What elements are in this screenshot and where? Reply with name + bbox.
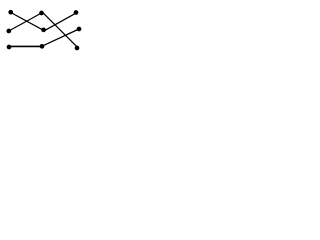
wire edge M-C (44, 13, 76, 31)
wire edge B-H (43, 12, 78, 47)
node H (75, 46, 80, 51)
wire edge D-B (9, 13, 42, 31)
node E (40, 44, 45, 49)
wire edge A-M (11, 13, 44, 31)
node B (39, 11, 44, 16)
node A (8, 10, 13, 15)
node G (77, 27, 82, 32)
wire edge E-G (42, 29, 79, 46)
node D (6, 29, 11, 34)
node F (7, 45, 12, 50)
node C (74, 10, 79, 15)
wire edge F-E (9, 45, 42, 47)
node M (41, 28, 46, 33)
